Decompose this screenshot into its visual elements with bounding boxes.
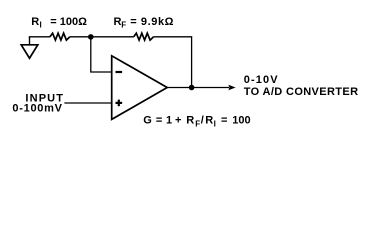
wire RI to node A (70, 36, 91, 38)
svg-text:G=1+RF/RI=100: G=1+RF/RI=100 (143, 115, 250, 129)
node B (output junction dot) (189, 85, 195, 91)
wire node A down to inverting input (91, 37, 112, 72)
arrow to A/D converter (228, 85, 235, 91)
wire node A to RF (91, 36, 134, 38)
wire ground to RI (29, 36, 50, 38)
svg-text:0-10V TO A/D CONVERTER: 0-10V TO A/D CONVERTER (244, 74, 359, 98)
node A (junction dot, inverting input net) (88, 34, 94, 40)
svg-text:INPUT 0-100mV: INPUT 0-100mV (12, 93, 67, 115)
wire input to non-inverting input (64, 102, 111, 104)
wire op-amp output (167, 87, 229, 89)
resistor RI (50, 33, 70, 40)
resistor RF (134, 33, 154, 40)
svg-text:RI= 100Ω: RI= 100Ω (31, 16, 87, 30)
ground (21, 37, 38, 58)
svg-text:RF= 9.9kΩ: RF= 9.9kΩ (114, 16, 175, 30)
wire RF to output node (feedback) (154, 37, 192, 88)
op-amp U1 (112, 56, 168, 120)
